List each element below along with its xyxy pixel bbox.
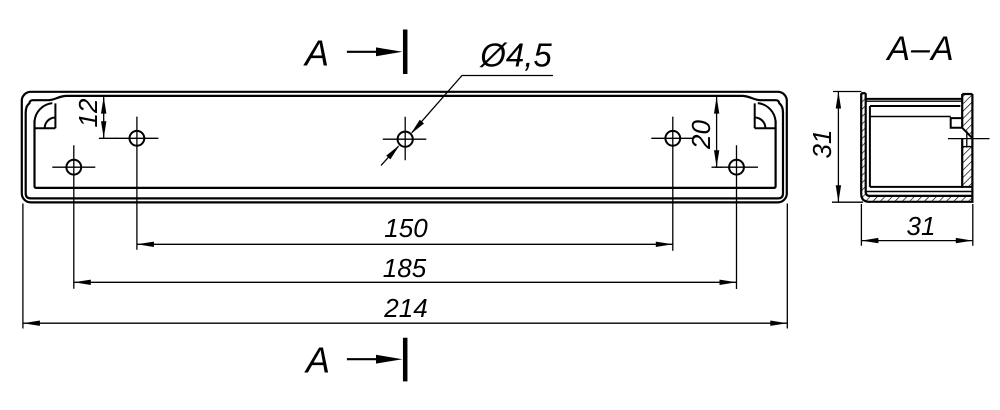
dim 214 line <box>23 322 787 324</box>
section hole countersink diagonal <box>962 128 972 138</box>
hole H3 center <box>398 132 413 147</box>
hole H3 centerlines <box>383 117 427 161</box>
dim 214 arrows <box>23 321 787 326</box>
section far rim line 2 <box>866 100 963 102</box>
section hatch right wall upper <box>962 94 972 138</box>
corner post top-right edges <box>755 103 776 128</box>
section far rim line 1 <box>866 98 963 100</box>
section hatch right wall lower <box>962 147 972 187</box>
dim 31 left: extension lines <box>832 92 863 203</box>
cavity outline <box>35 121 776 188</box>
dim 31 bottom arrows <box>861 238 972 243</box>
svg-text:185: 185 <box>383 253 427 283</box>
svg-text:A–A: A–A <box>885 30 954 68</box>
section far floor fillet line <box>866 191 972 193</box>
dim 150 arrows <box>137 242 673 247</box>
svg-text:12: 12 <box>73 98 103 127</box>
section right wall inner edge <box>961 94 963 188</box>
hole H5 lower-right <box>729 160 744 175</box>
dim 31 bottom: extension lines <box>861 204 972 246</box>
dim 185 arrows <box>74 280 737 285</box>
dim 31 left arrows <box>836 92 841 203</box>
leader arrows <box>386 120 424 160</box>
svg-text:214: 214 <box>383 293 427 323</box>
svg-text:20: 20 <box>686 120 716 150</box>
dim 150 line <box>137 243 673 245</box>
section far post line <box>870 116 951 118</box>
hole H4 upper-right <box>665 131 680 146</box>
dim 20 arrows <box>714 97 719 168</box>
hole H2 centerlines <box>115 117 158 250</box>
corner post top-right big arc <box>758 103 776 121</box>
section hole centerline <box>948 131 990 148</box>
section hatch left wall <box>861 93 870 202</box>
hole H1 lower-left <box>66 160 81 175</box>
dim 31 bottom: line <box>861 240 972 242</box>
hole H5 centerlines <box>715 145 758 289</box>
dim 20 line <box>712 97 723 168</box>
rim outline <box>26 96 783 198</box>
hole H2 upper-left <box>130 131 145 146</box>
section mark bottom: bar <box>403 338 408 382</box>
section far floor edge <box>870 186 973 188</box>
section mark top: arrow <box>347 51 381 53</box>
section mark top: bar <box>403 30 408 75</box>
corner post top-right small arc <box>755 118 766 129</box>
svg-text:Ø4,5: Ø4,5 <box>479 37 552 74</box>
section mark bottom: arrow <box>347 358 381 360</box>
corner post top-left edges <box>35 103 56 128</box>
dim 31 left: line <box>837 92 839 203</box>
section hole bottom edge <box>962 146 972 148</box>
section left wall top edge <box>861 92 866 94</box>
section far cavity wall edge <box>869 106 871 187</box>
svg-text:150: 150 <box>384 213 428 243</box>
outer outline <box>22 92 787 203</box>
section right wall top edge <box>962 93 972 95</box>
dim 12 line <box>99 97 117 139</box>
section far lip line <box>870 105 961 107</box>
corner post top-left small arc <box>45 118 56 129</box>
svg-text:31: 31 <box>907 211 936 241</box>
dim 185 line <box>74 281 737 283</box>
hole H4 centerlines <box>651 117 694 251</box>
dim 12 arrows <box>101 97 106 139</box>
hole H1 centerlines <box>52 145 95 289</box>
section boss step <box>951 118 963 128</box>
corner post top-left big arc <box>35 103 53 121</box>
svg-text:31: 31 <box>807 130 837 159</box>
section left wall inner edge + floor inner <box>866 93 973 196</box>
section outer outline <box>861 93 972 202</box>
dim 214 extension lines <box>23 204 787 329</box>
section hatch bottom wall <box>866 193 972 202</box>
leader Ø4,5 <box>381 76 553 166</box>
svg-text:A: A <box>304 340 330 381</box>
svg-text:A: A <box>303 33 329 74</box>
